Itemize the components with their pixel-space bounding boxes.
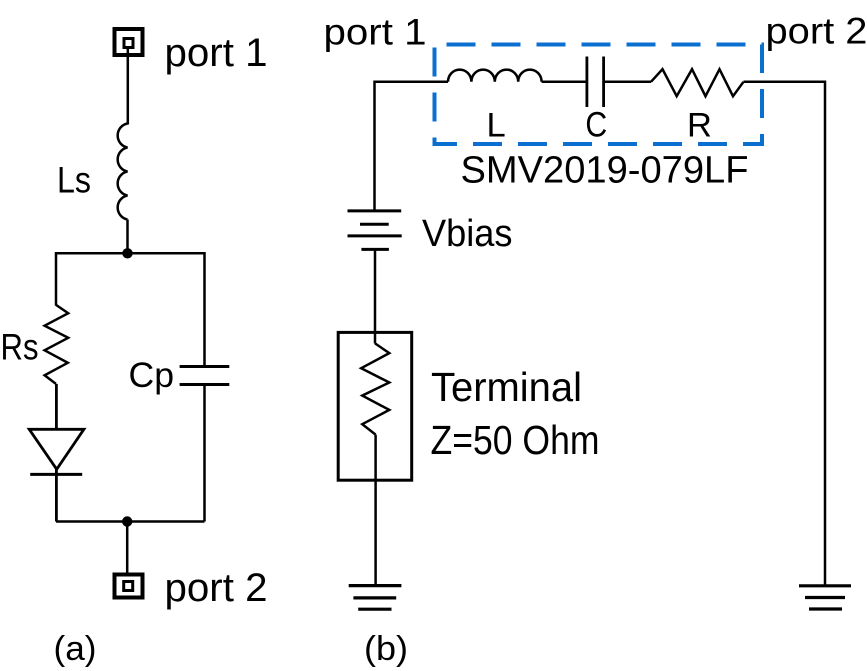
svg-text:port 1: port 1 xyxy=(324,12,427,53)
capacitor C xyxy=(587,57,604,108)
node A (top junction dot) xyxy=(122,248,132,258)
svg-text:port 2: port 2 xyxy=(766,11,867,52)
wire top rail xyxy=(56,253,205,366)
wire Rs to diode xyxy=(55,384,58,430)
wire port1 corner to inductor L xyxy=(375,82,449,211)
dashed package box SMV2019-079LF xyxy=(435,45,763,145)
resistor R xyxy=(651,69,744,96)
ground (right) xyxy=(799,586,851,609)
ground (left) xyxy=(349,586,402,610)
svg-text:Terminal: Terminal xyxy=(431,364,582,410)
wire R to port2 corner xyxy=(744,82,826,586)
svg-text:L: L xyxy=(487,107,506,145)
svg-text:port 1: port 1 xyxy=(165,31,268,75)
diode D1 (varactor) xyxy=(29,429,84,474)
port 1 terminal symbol xyxy=(115,29,143,55)
svg-text:Vbias: Vbias xyxy=(422,213,513,255)
capacitor Cp xyxy=(180,367,230,385)
svg-text:port 2: port 2 xyxy=(165,566,268,610)
wire L to C xyxy=(542,81,587,84)
resistor Rs xyxy=(45,305,69,384)
terminal resistor zigzag xyxy=(361,343,389,434)
wire Ls to node A xyxy=(126,220,129,254)
svg-text:(b): (b) xyxy=(364,630,408,668)
svg-text:Cp: Cp xyxy=(129,355,175,395)
svg-text:R: R xyxy=(687,107,712,145)
port 2 terminal symbol xyxy=(115,575,143,598)
inductor L xyxy=(448,70,542,82)
terminal box xyxy=(338,332,412,480)
inductor Ls xyxy=(118,124,128,220)
svg-text:Ls: Ls xyxy=(57,160,91,201)
wire Cp to bottom rail xyxy=(203,385,206,522)
svg-text:(a): (a) xyxy=(54,630,97,668)
svg-text:SMV2019-079LF: SMV2019-079LF xyxy=(461,150,749,192)
svg-text:C: C xyxy=(585,105,607,145)
wire port1 to Ls xyxy=(127,48,130,125)
wire C to R xyxy=(604,81,651,84)
wire battery to terminal box xyxy=(374,249,377,343)
svg-text:Z=50 Ohm: Z=50 Ohm xyxy=(431,417,600,463)
battery Vbias xyxy=(348,211,402,250)
wire terminal box to ground xyxy=(374,435,377,586)
wire node B to port 2 xyxy=(126,522,129,575)
wire diode to bottom rail xyxy=(55,469,58,521)
svg-text:Rs: Rs xyxy=(1,327,39,368)
wire bottom rail xyxy=(56,520,205,523)
node B (bottom junction dot) xyxy=(122,516,132,526)
